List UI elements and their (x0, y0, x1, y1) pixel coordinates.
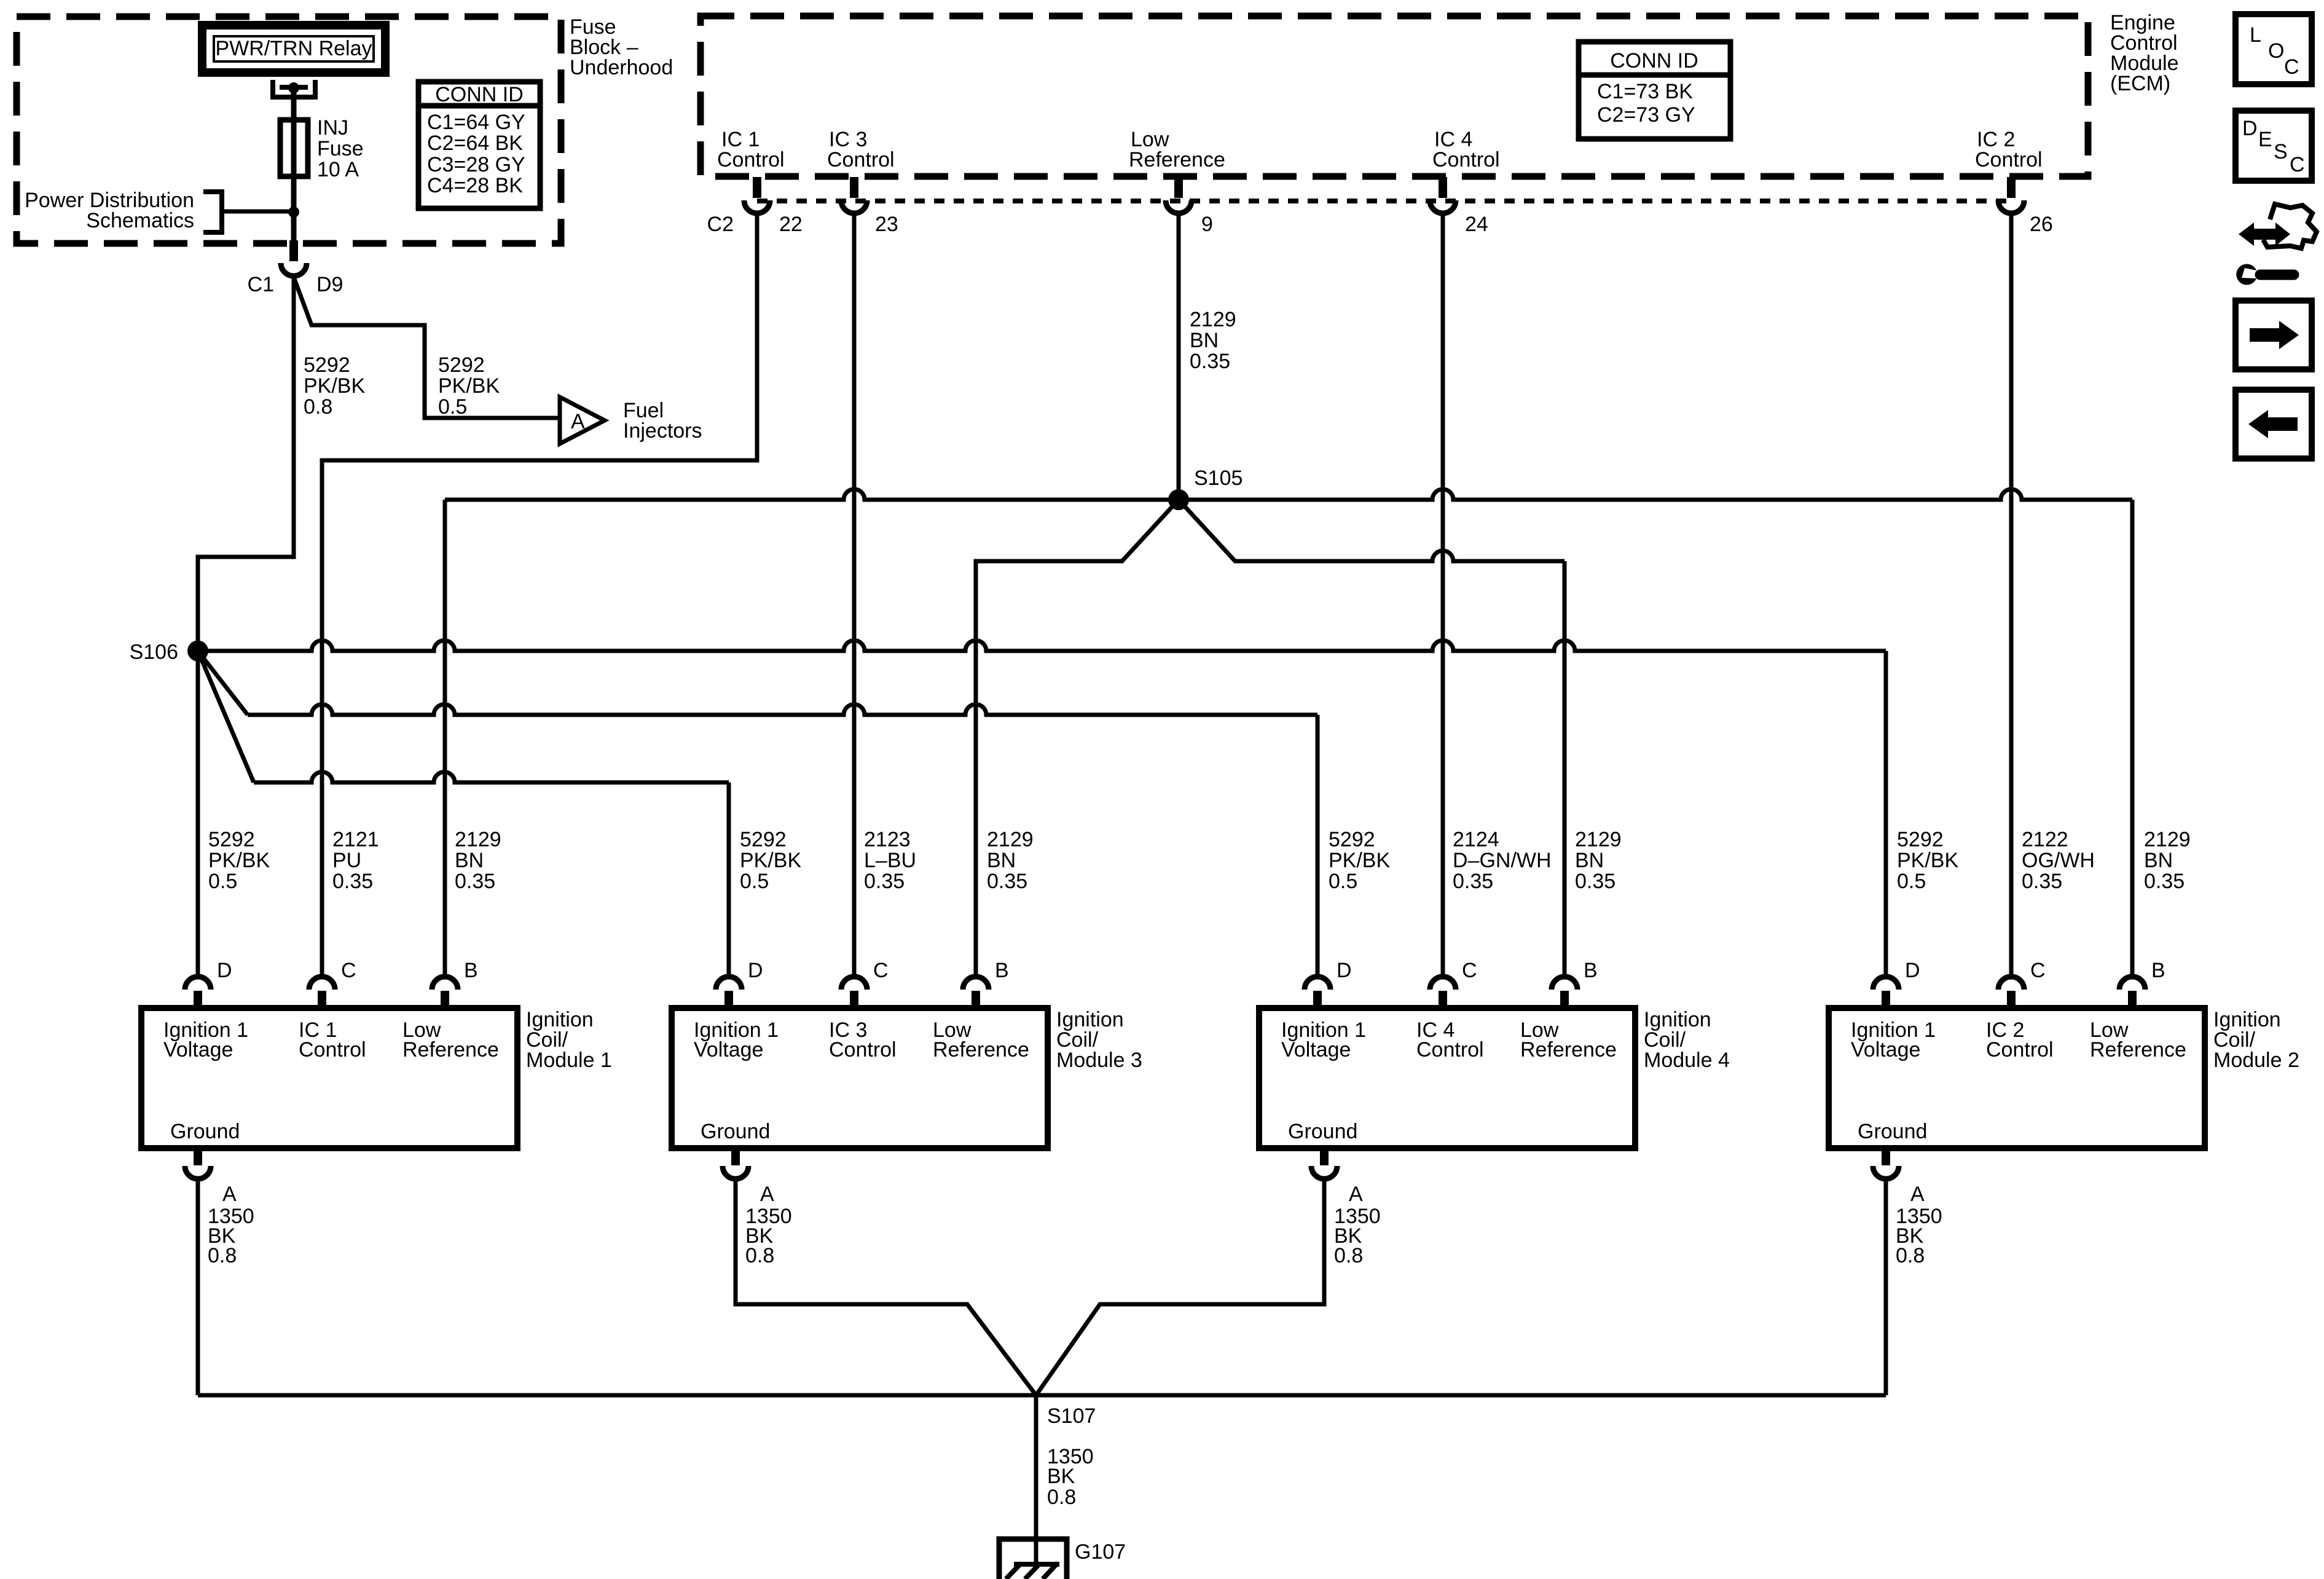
module 1 pin A ground (185, 1147, 237, 1206)
svg-text:A: A (1349, 1183, 1363, 1206)
svg-text:0.35: 0.35 (455, 870, 495, 893)
fuel injector arrow A (560, 397, 605, 444)
junction dot below fuse (288, 207, 299, 218)
svg-text:Injectors: Injectors (623, 419, 702, 443)
svg-text:A: A (1910, 1183, 1925, 1206)
svg-text:BK: BK (1047, 1465, 1075, 1488)
svg-text:BN: BN (2144, 849, 2173, 872)
svg-text:S107: S107 (1047, 1404, 1096, 1428)
ECM label (2110, 11, 2179, 95)
module 1 pin C (309, 977, 335, 990)
svg-text:C2=64 BK: C2=64 BK (427, 132, 523, 155)
svg-text:O: O (2268, 39, 2284, 63)
svg-text:L: L (2250, 23, 2261, 47)
ECM pin 24 connector (1430, 177, 1488, 236)
svg-text:PK/BK: PK/BK (304, 374, 365, 398)
S106 bus 1 to M2 pin D (198, 640, 1886, 651)
svg-text:2129: 2129 (1190, 308, 1236, 331)
wire 9 low reference to S105 (1177, 214, 1181, 500)
svg-text:0.8: 0.8 (745, 1244, 774, 1267)
svg-text:D: D (1905, 959, 1920, 982)
svg-text:Module 2: Module 2 (2213, 1049, 2299, 1072)
svg-text:Reference: Reference (2090, 1038, 2186, 1061)
low reference bus left to M1 pin B (445, 489, 1179, 500)
module 1 pin B (432, 977, 458, 990)
svg-text:D–GN/WH: D–GN/WH (1453, 849, 1552, 872)
svg-text:Control: Control (829, 1038, 897, 1061)
svg-text:INJ: INJ (317, 116, 348, 140)
svg-text:PK/BK: PK/BK (1897, 849, 1958, 872)
svg-text:B: B (2151, 959, 2165, 982)
wire 22 IC1 control to M1 pin C (322, 214, 757, 974)
low reference bus right to M2 pin B (1179, 489, 2132, 500)
wire 5292 branch to fuel injectors (294, 277, 560, 418)
engine control module ECM dashed box (701, 16, 2088, 176)
svg-text:BN: BN (1190, 329, 1219, 352)
svg-text:Ground: Ground (170, 1120, 240, 1143)
svg-text:C1=64 GY: C1=64 GY (427, 111, 525, 134)
svg-text:CONN ID: CONN ID (435, 83, 524, 106)
svg-text:0.35: 0.35 (864, 870, 905, 893)
svg-text:Ground: Ground (1858, 1120, 1927, 1143)
splice S105 (1168, 489, 1189, 510)
svg-text:22: 22 (779, 213, 803, 236)
svg-text:5292: 5292 (740, 828, 787, 851)
module 1 pin D (185, 977, 211, 990)
ECM pin 26 connector (1998, 177, 2053, 236)
svg-text:BN: BN (987, 849, 1016, 872)
svg-text:C: C (2030, 959, 2046, 982)
module 4 pin B (1552, 977, 1577, 990)
svg-text:26: 26 (2030, 213, 2053, 236)
svg-text:Ground: Ground (701, 1120, 770, 1143)
sidebar back arrow button (2236, 390, 2312, 459)
svg-text:0.35: 0.35 (1190, 350, 1230, 373)
svg-text:5292: 5292 (208, 828, 255, 851)
ground wire M3 to S107 (736, 1179, 1036, 1395)
svg-text:D: D (217, 959, 232, 982)
svg-text:Control: Control (1432, 148, 1500, 171)
svg-text:C1: C1 (248, 273, 274, 296)
module 4 name label (1644, 1008, 1730, 1072)
svg-text:Reference: Reference (1520, 1038, 1617, 1061)
svg-text:2129: 2129 (1575, 828, 1622, 851)
ground wire M2 (1884, 1179, 1888, 1395)
svg-text:Control: Control (1986, 1038, 2054, 1061)
svg-text:Control: Control (827, 148, 895, 171)
svg-text:10 A: 10 A (317, 158, 359, 181)
module 4 pin A ground (1311, 1147, 1363, 1206)
wire label 2121 PU 0.35 (332, 828, 379, 893)
CONN ID table fuse block (418, 82, 540, 208)
wire label 1350 BK 0.8 module 4 (1334, 1205, 1381, 1267)
wire 1350 to G107 (1034, 1395, 1038, 1564)
fuse F: INJ Fuse 10 A (280, 116, 364, 181)
fuse block label (570, 15, 673, 79)
ECM pin labels (717, 128, 785, 171)
svg-text:A: A (571, 410, 585, 433)
wire label 1350 BK 0.8 module 1 (208, 1205, 254, 1267)
wire label 2123 L-BU 0.35 (864, 828, 916, 893)
svg-text:Module 4: Module 4 (1644, 1049, 1730, 1072)
svg-text:S106: S106 (130, 640, 178, 664)
svg-text:PK/BK: PK/BK (740, 849, 801, 872)
svg-text:Control: Control (299, 1038, 366, 1061)
svg-text:Reference: Reference (1129, 148, 1225, 171)
svg-text:0.5: 0.5 (1329, 870, 1357, 893)
svg-text:PU: PU (332, 849, 361, 872)
wire label 2124 D-GN/WH 0.35 (1453, 828, 1552, 893)
svg-text:Underhood: Underhood (570, 56, 673, 79)
svg-text:CONN ID: CONN ID (1610, 49, 1698, 73)
svg-text:C: C (341, 959, 356, 982)
wire 5292 from C1 down-jog to S106 (198, 276, 294, 645)
splice S106 (187, 640, 208, 661)
svg-text:OG/WH: OG/WH (2022, 849, 2095, 872)
wire label 5292 PK/BK 0.5 (1329, 828, 1390, 893)
svg-text:D9: D9 (316, 273, 343, 296)
svg-text:23: 23 (875, 213, 898, 236)
wire 24 IC4 control to M4 pin C (1441, 214, 1445, 974)
svg-text:2122: 2122 (2022, 828, 2068, 851)
wire label 1350 BK 0.8 module 3 (745, 1205, 792, 1267)
svg-text:5292: 5292 (1897, 828, 1944, 851)
module 3 pin D (716, 977, 742, 990)
svg-text:Voltage: Voltage (694, 1038, 763, 1061)
wire label 2129 BN 0.35 (987, 828, 1034, 893)
svg-text:5292: 5292 (1329, 828, 1375, 851)
label 2129 BN 0.35 top (1190, 308, 1236, 373)
sidebar next arrow button (2236, 301, 2312, 369)
S106 bus 2 to M4 pin D (198, 651, 248, 715)
svg-text:0.35: 0.35 (332, 870, 373, 893)
ignition coil module 3 box (672, 1008, 1048, 1148)
ECM pin 23 connector (841, 177, 898, 236)
power distribution schematics callout (25, 189, 289, 232)
svg-text:Control: Control (1416, 1038, 1484, 1061)
svg-text:0.35: 0.35 (987, 870, 1027, 893)
svg-text:(ECM): (ECM) (2110, 72, 2170, 95)
module 4 pin C (1430, 977, 1456, 990)
module 3 pin B (963, 977, 989, 990)
S105 branch to M4 pin B (1179, 500, 1564, 561)
module 1 name label (526, 1008, 612, 1072)
module 2 pin B (2119, 977, 2145, 990)
svg-text:0.35: 0.35 (1575, 870, 1615, 893)
svg-text:Reference: Reference (933, 1038, 1029, 1061)
svg-text:0.8: 0.8 (1047, 1486, 1076, 1509)
fuse block underhood dashed box (17, 17, 561, 243)
svg-text:D: D (2242, 117, 2258, 140)
svg-text:2129: 2129 (455, 828, 501, 851)
svg-text:PK/BK: PK/BK (1329, 849, 1390, 872)
relay output terminal (273, 80, 315, 97)
wire label 5292 PK/BK 0.5 (208, 828, 270, 893)
label 5292 PK/BK 0.5 (438, 353, 500, 419)
ignition coil module 2 box (1829, 1008, 2205, 1148)
svg-text:S: S (2274, 140, 2288, 163)
svg-text:0.8: 0.8 (304, 395, 332, 419)
svg-text:Voltage: Voltage (163, 1038, 233, 1061)
sidebar DESC button (2236, 111, 2312, 181)
svg-text:Ground: Ground (1288, 1120, 1357, 1143)
svg-text:Control: Control (717, 148, 785, 171)
svg-text:Control: Control (1975, 148, 2043, 171)
S106 bus 3 to M3 pin D (198, 651, 254, 782)
svg-text:C: C (2284, 55, 2299, 79)
svg-text:C3=28 GY: C3=28 GY (427, 153, 525, 176)
svg-text:Voltage: Voltage (1281, 1038, 1351, 1061)
svg-text:0.8: 0.8 (208, 1244, 237, 1267)
svg-text:B: B (995, 959, 1009, 982)
svg-text:A: A (222, 1183, 237, 1206)
ignition coil module 4 box (1259, 1008, 1635, 1148)
svg-text:0.8: 0.8 (1334, 1244, 1363, 1267)
svg-text:0.5: 0.5 (208, 870, 237, 893)
svg-text:G107: G107 (1075, 1540, 1126, 1564)
sidebar LOC button (2236, 14, 2312, 84)
svg-text:D: D (748, 959, 763, 982)
svg-text:0.5: 0.5 (1897, 870, 1926, 893)
S106 wire down to M1 pin D (196, 651, 200, 974)
svg-text:Module 3: Module 3 (1056, 1049, 1142, 1072)
connector C2 dotted line (757, 199, 2011, 203)
svg-text:S105: S105 (1194, 467, 1242, 490)
svg-text:PWR/TRN Relay: PWR/TRN Relay (215, 37, 372, 60)
module 4 pin D (1305, 977, 1330, 990)
svg-text:Module 1: Module 1 (526, 1049, 612, 1072)
wire label 5292 PK/BK 0.5 (1897, 828, 1958, 893)
svg-text:PK/BK: PK/BK (438, 374, 500, 398)
ignition coil module 1 box (141, 1008, 517, 1148)
svg-text:Schematics: Schematics (86, 209, 194, 232)
svg-text:Voltage: Voltage (1851, 1038, 1920, 1061)
ECM pin 22 connector (744, 177, 803, 236)
svg-text:0.8: 0.8 (1896, 1244, 1925, 1267)
svg-text:L–BU: L–BU (864, 849, 916, 872)
svg-text:24: 24 (1465, 213, 1488, 236)
ground wire M1 to bus (196, 1179, 200, 1395)
svg-text:2123: 2123 (864, 828, 911, 851)
S105 branch to M3 pin B (976, 500, 1179, 974)
svg-text:C1=73 BK: C1=73 BK (1597, 80, 1693, 103)
relay K: PWR/TRN Relay box (202, 25, 385, 73)
svg-text:2124: 2124 (1453, 828, 1499, 851)
svg-text:C: C (2290, 153, 2305, 176)
svg-text:E: E (2258, 128, 2272, 151)
svg-text:2129: 2129 (987, 828, 1034, 851)
wire label 1350 BK 0.8 module 2 (1896, 1205, 1942, 1267)
module 3 pin A ground (723, 1147, 774, 1206)
sidebar diagnostic icon (2236, 204, 2317, 285)
wire label 2129 BN 0.35 (2144, 828, 2191, 893)
module 3 pin C (841, 977, 867, 990)
svg-text:0.35: 0.35 (2022, 870, 2062, 893)
svg-text:2121: 2121 (332, 828, 379, 851)
connector C1 pin D9 (289, 240, 298, 261)
svg-text:0.35: 0.35 (1453, 870, 1493, 893)
svg-text:5292: 5292 (438, 353, 485, 377)
module 2 pin C (1998, 977, 2024, 990)
ground bus to S107 (198, 1393, 1886, 1398)
label 5292 PK/BK 0.8 (304, 353, 365, 419)
wire label 5292 PK/BK 0.5 (740, 828, 801, 893)
svg-text:B: B (464, 959, 478, 982)
svg-text:A: A (760, 1183, 774, 1206)
module 2 pin A ground (1873, 1147, 1925, 1206)
module 2 name label (2213, 1008, 2299, 1072)
svg-text:C: C (873, 959, 889, 982)
wire 23 IC3 control to M3 pin C (852, 214, 857, 974)
ground wire M4 to S107 (1036, 1179, 1324, 1395)
ECM pin 9 connector (1166, 177, 1213, 236)
svg-text:D: D (1337, 959, 1352, 982)
wire relay to C1 (291, 88, 297, 240)
ground G107 symbol (999, 1539, 1067, 1579)
wire label 2129 BN 0.35 (1575, 828, 1622, 893)
module 3 name label (1056, 1008, 1142, 1072)
wire 26 IC2 control to M2 pin C (2009, 214, 2014, 974)
svg-text:9: 9 (1201, 213, 1213, 236)
svg-text:B: B (1584, 959, 1598, 982)
CONN ID table ECM (1579, 42, 1730, 139)
svg-text:5292: 5292 (304, 353, 350, 377)
svg-text:0.5: 0.5 (740, 870, 769, 893)
svg-text:0.5: 0.5 (438, 395, 467, 419)
svg-text:0.35: 0.35 (2144, 870, 2185, 893)
svg-text:BN: BN (455, 849, 484, 872)
wire label 2122 OG/WH 0.35 (2022, 828, 2095, 893)
module 2 pin D (1873, 977, 1899, 990)
svg-text:C2=73 GY: C2=73 GY (1597, 103, 1695, 127)
wire label 2129 BN 0.35 (455, 828, 501, 893)
svg-text:C4=28 BK: C4=28 BK (427, 174, 523, 197)
svg-text:2129: 2129 (2144, 828, 2191, 851)
svg-text:C: C (1462, 959, 1477, 982)
svg-text:Fuse: Fuse (317, 137, 364, 160)
svg-text:Reference: Reference (402, 1038, 499, 1061)
svg-text:C2: C2 (707, 213, 734, 236)
svg-text:BN: BN (1575, 849, 1604, 872)
svg-text:PK/BK: PK/BK (208, 849, 270, 872)
